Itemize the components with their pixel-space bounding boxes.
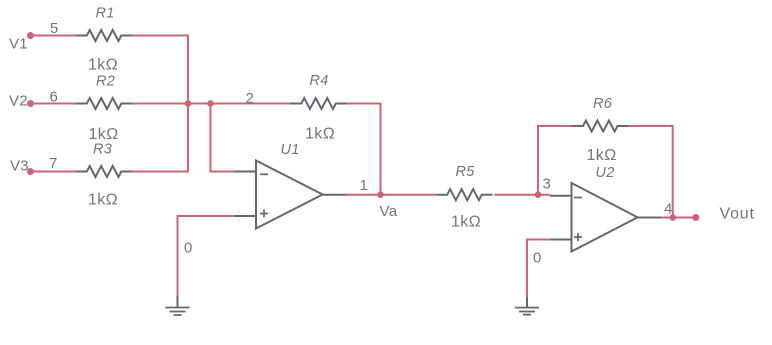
- wire net2 down to U1 inverting input: [211, 104, 234, 172]
- resistor R1: [76, 30, 132, 41]
- svg-text:V1: V1: [9, 36, 28, 53]
- wire U1 output to R5 (node Va): [347, 194, 437, 196]
- wire net3 up to R6: [538, 126, 572, 196]
- svg-text:V2: V2: [9, 93, 28, 110]
- svg-text:R6: R6: [593, 96, 613, 112]
- junction node Va: [377, 191, 384, 198]
- wire V2 to R2: [31, 103, 77, 105]
- resistor R4: [291, 98, 347, 109]
- wire R2 to R4 (net 2): [132, 103, 291, 105]
- svg-text:1kΩ: 1kΩ: [587, 147, 617, 164]
- ground (U1, net 0): [166, 297, 190, 316]
- wire U2 noninverting input to ground: [527, 240, 550, 298]
- wire V3 to R3: [31, 171, 77, 173]
- wire summing bus vertical: [187, 35, 189, 173]
- svg-text:1kΩ: 1kΩ: [88, 57, 118, 74]
- svg-text:R3: R3: [93, 142, 112, 158]
- wire R3 to bus: [132, 171, 189, 173]
- resistor R2: [76, 98, 132, 109]
- wire V1 to R1: [31, 35, 77, 37]
- terminal dot V1: [27, 32, 34, 39]
- svg-text:Va: Va: [380, 203, 398, 220]
- svg-text:5: 5: [50, 20, 59, 37]
- junction net 3: [535, 191, 542, 198]
- svg-text:Vout: Vout: [720, 206, 755, 223]
- resistor R6: [572, 121, 628, 132]
- junction output node 4: [670, 214, 677, 221]
- wire U1 noninverting input to ground: [178, 216, 234, 297]
- svg-text:1kΩ: 1kΩ: [89, 126, 119, 143]
- svg-text:7: 7: [49, 155, 58, 172]
- wire R1 to bus: [132, 35, 189, 37]
- svg-text:2: 2: [246, 90, 255, 107]
- resistor R5: [436, 189, 492, 200]
- svg-text:0: 0: [533, 250, 542, 267]
- svg-text:R1: R1: [96, 6, 115, 22]
- ground (U2, net 0): [515, 297, 539, 315]
- junction net2 branch: [207, 100, 214, 107]
- svg-text:6: 6: [50, 89, 59, 106]
- svg-text:0: 0: [184, 240, 193, 257]
- svg-text:1kΩ: 1kΩ: [88, 192, 118, 209]
- svg-text:U2: U2: [596, 165, 615, 181]
- svg-text:1: 1: [360, 177, 369, 194]
- op-amp U1: [234, 161, 347, 229]
- terminal dot V3: [27, 168, 34, 175]
- svg-text:1kΩ: 1kΩ: [305, 126, 335, 143]
- svg-text:4: 4: [664, 201, 673, 218]
- terminal dot V2: [27, 100, 34, 107]
- svg-text:V3: V3: [10, 158, 29, 175]
- wire R5 to U2 inverting input (net 3): [494, 194, 550, 196]
- op-amp U2: [550, 183, 662, 252]
- svg-text:1kΩ: 1kΩ: [451, 214, 481, 231]
- svg-text:U1: U1: [281, 142, 300, 158]
- resistor R3: [76, 166, 132, 177]
- wire U2 output to Vout terminal: [661, 217, 696, 219]
- svg-text:R4: R4: [310, 73, 329, 89]
- wire R6 right down to output node: [627, 126, 673, 218]
- svg-text:R5: R5: [456, 164, 476, 180]
- wire R4 right to node Va: [345, 104, 381, 195]
- junction bus/R2: [185, 100, 192, 107]
- svg-text:R2: R2: [96, 74, 115, 90]
- terminal dot Vout: [692, 214, 699, 221]
- svg-text:3: 3: [543, 176, 552, 193]
